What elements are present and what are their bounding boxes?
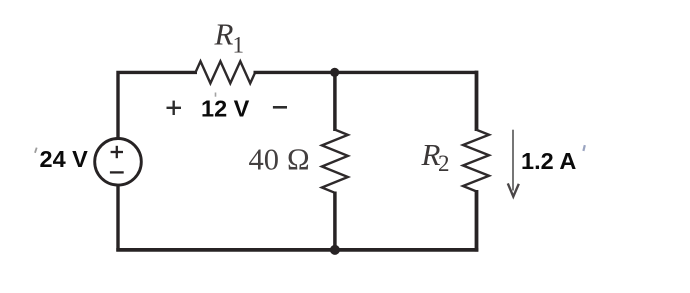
svg-text:2: 2 — [438, 151, 450, 176]
stray scan mark above 12 V — [215, 93, 217, 97]
wire left branch lower lead (source to bottom rail) — [116, 185, 119, 252]
plus terminal inside source — [111, 146, 123, 158]
wire right branch upper lead — [475, 71, 479, 131]
svg-text:24 V: 24 V — [40, 146, 89, 172]
node: top junction dot — [330, 68, 339, 77]
wire R1 right lead to top-right corner — [254, 71, 477, 74]
stray scan mark left of 24 V — [34, 147, 37, 153]
label minus polarity of 12 V — [273, 106, 287, 109]
wire top-left segment (node a to R1 left lead) — [118, 72, 197, 138]
wire middle branch upper lead — [333, 72, 337, 131]
resistor 40-ohm zigzag (middle branch) — [322, 130, 348, 193]
wire bottom rail — [116, 248, 478, 252]
label plus polarity of 12 V — [167, 101, 182, 115]
voltage source Vs 24 V (circle symbol) — [95, 139, 142, 186]
svg-text:40 Ω: 40 Ω — [249, 143, 311, 177]
node: bottom junction dot — [330, 245, 340, 255]
stray scan mark right of 1.2 A — [582, 145, 586, 151]
svg-text:12 V: 12 V — [201, 96, 250, 122]
wire right branch lower lead — [475, 190, 479, 252]
svg-text:1: 1 — [233, 32, 245, 57]
svg-text:R: R — [214, 17, 234, 52]
resistor R1 zigzag — [196, 61, 256, 83]
current arrow 1.2 A (shaft) — [512, 130, 514, 191]
svg-text:1.2 A: 1.2 A — [521, 148, 576, 174]
current arrow head — [508, 183, 519, 196]
minus terminal inside source — [110, 171, 124, 173]
resistor R2 zigzag (right branch) — [463, 130, 489, 192]
wire middle branch lower lead — [333, 192, 337, 251]
